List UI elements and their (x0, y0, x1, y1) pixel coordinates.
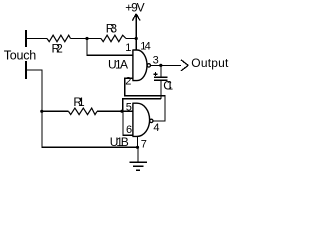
svg-text:C1: C1 (163, 79, 173, 93)
svg-text:U1A: U1A (108, 58, 128, 72)
svg-text:5: 5 (126, 101, 132, 113)
svg-text:2: 2 (125, 76, 131, 88)
svg-text:6: 6 (126, 124, 132, 136)
svg-text:4: 4 (153, 122, 159, 134)
svg-text:+9V: +9V (125, 1, 145, 15)
svg-text:R2: R2 (52, 42, 64, 56)
svg-text:R3: R3 (106, 22, 118, 36)
svg-text:U1B: U1B (110, 135, 129, 149)
svg-text:7: 7 (141, 138, 147, 150)
svg-text:Touch: Touch (4, 49, 37, 63)
svg-text:14: 14 (140, 40, 151, 52)
svg-text:Output: Output (191, 56, 229, 70)
svg-text:R1: R1 (73, 95, 85, 109)
svg-text:3: 3 (153, 54, 159, 66)
svg-text:1: 1 (125, 42, 131, 54)
